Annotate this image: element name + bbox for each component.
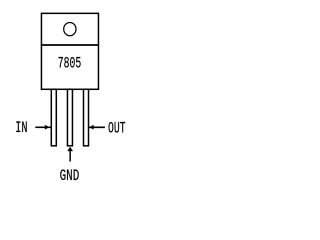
wire: IN arrow line — [35, 126, 51, 128]
pin 1 leg (IN) — [51, 89, 56, 146]
pin 3 leg (OUT) — [84, 89, 89, 146]
OUT arrowhead — [90, 125, 94, 130]
svg-text:7805: 7805 — [58, 54, 81, 72]
svg-text:IN: IN — [15, 120, 27, 138]
wire: GND arrow line — [69, 151, 71, 162]
svg-text:OUT: OUT — [108, 119, 126, 137]
wire: OUT arrow line — [89, 126, 105, 128]
IN arrowhead — [45, 125, 50, 130]
mounting hole — [64, 23, 76, 36]
tab/body divider line — [41, 44, 99, 46]
GND arrowhead — [67, 147, 73, 151]
regulator U1 package outline (TO-220) — [41, 13, 98, 89]
pin 2 leg (GND) — [67, 89, 72, 146]
svg-text:GND: GND — [60, 168, 80, 185]
